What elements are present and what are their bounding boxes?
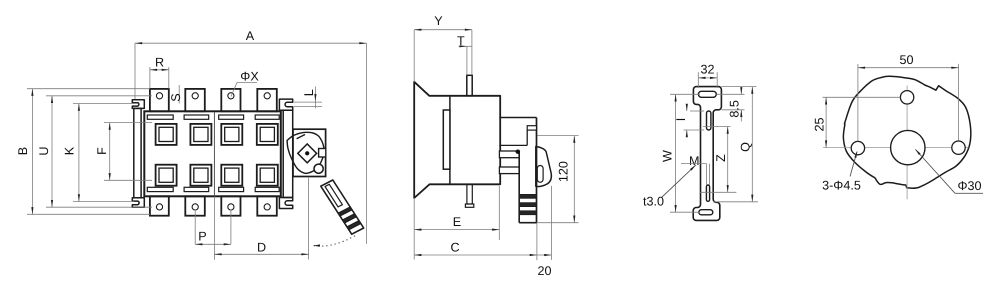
svg-text:U: U bbox=[37, 146, 51, 155]
svg-text:C: C bbox=[450, 240, 459, 254]
svg-text:120: 120 bbox=[557, 161, 571, 182]
svg-text:L: L bbox=[302, 89, 316, 96]
svg-text:K: K bbox=[62, 146, 76, 155]
svg-text:F: F bbox=[95, 147, 109, 155]
svg-text:t3.0: t3.0 bbox=[643, 195, 664, 209]
svg-text:32: 32 bbox=[700, 62, 714, 76]
svg-text:R: R bbox=[155, 56, 164, 70]
svg-text:S: S bbox=[169, 93, 183, 101]
svg-text:8.5: 8.5 bbox=[728, 100, 742, 118]
svg-text:ΦX: ΦX bbox=[240, 70, 259, 84]
svg-text:D: D bbox=[257, 240, 266, 254]
svg-text:Q: Q bbox=[738, 142, 752, 152]
svg-text:B: B bbox=[16, 147, 30, 155]
svg-text:50: 50 bbox=[899, 53, 913, 67]
svg-text:P: P bbox=[198, 230, 206, 244]
svg-text:Y: Y bbox=[434, 14, 443, 28]
svg-text:Z: Z bbox=[714, 154, 728, 162]
svg-text:W: W bbox=[660, 150, 674, 162]
svg-text:E: E bbox=[453, 215, 461, 229]
svg-text:20: 20 bbox=[537, 264, 551, 278]
svg-text:A: A bbox=[246, 29, 255, 43]
svg-text:I: I bbox=[674, 118, 688, 122]
svg-text:Φ30: Φ30 bbox=[957, 179, 981, 193]
svg-text:3-Φ4.5: 3-Φ4.5 bbox=[822, 179, 861, 193]
svg-text:25: 25 bbox=[813, 117, 827, 131]
